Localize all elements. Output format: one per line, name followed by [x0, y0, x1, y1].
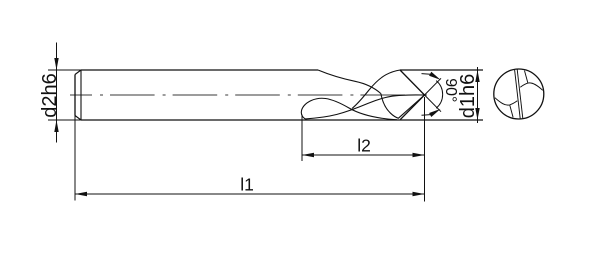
d2h6 arrow top [54, 58, 58, 70]
angle arrow lower tail [422, 114, 431, 117]
angle arc 90 deg [436, 81, 442, 109]
flute run-out teardrop [301, 98, 397, 120]
d2h6 extension bottom [48, 119, 81, 121]
top d1 extension line [400, 69, 483, 71]
d2h6 dimension line [56, 43, 58, 143]
end view circle [494, 69, 544, 119]
shank left face [74, 75, 76, 116]
point flank upper [400, 70, 425, 95]
flank extension lower for angle [425, 95, 442, 112]
flank extension upper for angle [425, 78, 442, 95]
l1 arrow right [413, 192, 425, 196]
lower flute edge curve to tip [306, 95, 425, 119]
l1 extension left [74, 116, 76, 201]
l2 dimension line [302, 154, 425, 156]
body top outline [81, 69, 318, 71]
l1 arrow left [75, 192, 87, 196]
svg-text:l2: l2 [357, 136, 371, 156]
centerline axis [70, 94, 427, 96]
d2h6 arrow bottom [54, 120, 58, 132]
angle arrow upper tail [422, 73, 431, 76]
d2h6 extension top [48, 69, 81, 71]
flute helix curve C [352, 70, 400, 109]
chamfer bottom [75, 116, 81, 121]
web chisel line left [515, 70, 521, 119]
lip curve left [495, 98, 517, 105]
body bottom outline with d1 extension [81, 119, 483, 121]
svg-text:d2h6: d2h6 [39, 73, 61, 118]
d1h6 arrow top [475, 70, 479, 82]
angle arc arrow lower [429, 109, 441, 117]
chamfer top [75, 70, 81, 75]
svg-text:d1h6: d1h6 [457, 74, 479, 119]
web chisel line right [517, 70, 523, 119]
heel line top right [525, 71, 528, 84]
angle arc arrow upper [429, 72, 441, 80]
l2 l1 extension right [424, 97, 426, 202]
d1h6 dimension line [477, 67, 479, 123]
l1 dimension line [75, 193, 425, 195]
l2 arrow right [413, 153, 425, 157]
heel line bottom left [510, 105, 513, 118]
cutting lip line [398, 95, 424, 118]
l2 extension left [301, 115, 303, 162]
svg-text:l1: l1 [240, 175, 254, 195]
chamfer inner edge [80, 70, 82, 120]
flute helix curve A [318, 70, 381, 94]
flute face arc near point [381, 94, 399, 119]
d1h6 arrow bottom [475, 108, 479, 120]
lip curve right [520, 83, 542, 90]
point flank lower [400, 95, 424, 120]
l2 arrow left [302, 153, 314, 157]
